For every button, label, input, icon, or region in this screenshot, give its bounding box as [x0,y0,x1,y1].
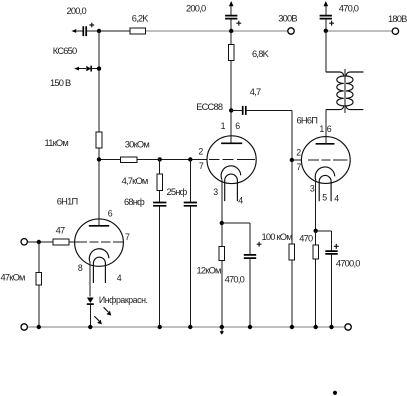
tube ECC88 cathode [221,166,241,201]
ground marker [220,327,224,335]
diode KC650 arrow [74,67,86,71]
resistor 470 [313,245,319,259]
wire cathode to 12k [221,223,223,327]
wire 6N6P grid column [291,160,293,327]
stray dot bottom right [333,391,337,395]
tube 6N1P grid [74,241,123,243]
input arrow left [72,29,84,33]
svg-text:30кОм: 30кОм [125,140,150,150]
svg-text:5: 5 [322,193,327,203]
wire top rail left segment [86,30,130,32]
wire cathode to 470 [315,231,317,327]
svg-text:4: 4 [238,196,243,206]
resistor 4,7kOm [157,174,163,191]
svg-text:3: 3 [310,183,315,193]
wire 47 to grid [69,241,75,243]
node ECC88 cathode junction [220,221,224,225]
node 6N6P cathode junction [314,229,318,233]
tube 6N6P envelope [301,137,350,184]
capacitor 25nf [184,203,197,206]
svg-text:6Н6П: 6Н6П [297,116,318,126]
tube ECC88 grid [209,158,255,160]
wire input to node [28,241,54,243]
wire mid rail [99,158,207,160]
svg-text:4,7: 4,7 [250,87,261,97]
svg-text:7: 7 [297,162,302,172]
tube 6N6P grid [308,159,347,161]
capacitor 470,0 top [320,1,334,31]
node input junction [37,240,41,244]
node C junction [188,157,192,161]
svg-text:12кОм: 12кОм [197,266,222,276]
wire 6N6P plate column [325,110,327,144]
node 200,0 junction [229,29,233,33]
svg-text:Инфракрасн.: Инфракрасн. [99,295,148,305]
node 470,0 junction [324,29,328,33]
pin labels ECC88 [198,121,243,206]
wire node C down [189,159,191,327]
wire node B down [159,159,161,327]
resistor 6,8K [228,45,234,61]
node A junction [97,157,101,161]
capacitor 4,7 [231,106,292,160]
wire 6N6P grid lead [292,159,302,161]
svg-text:6: 6 [327,124,332,134]
LED infrared [87,298,111,328]
svg-text:6,8K: 6,8K [252,49,270,59]
node dots bottom rail [37,325,41,329]
resistor 30kOm [120,157,137,163]
node B junction [158,157,162,161]
svg-text:1: 1 [319,124,324,134]
tube ECC88 envelope [207,136,256,184]
svg-text:6,2K: 6,2K [132,14,150,24]
svg-text:180В: 180В [388,14,407,24]
svg-text:7: 7 [125,232,130,242]
wire transformer left column [325,31,327,144]
wire ECC88 cathode leg [221,179,223,223]
svg-text:11кОм: 11кОм [45,138,69,148]
node top-left junction [97,29,101,33]
svg-text:КС650: КС650 [53,46,77,56]
svg-text:100 кОм: 100 кОм [262,232,293,242]
svg-text:300В: 300В [278,13,297,23]
terminal 180V [392,28,398,34]
svg-text:7: 7 [199,161,204,171]
capacitor 68nf [153,203,166,206]
pin labels 6N6P [296,124,339,203]
wire ECC88 plate column [230,31,232,143]
resistor 11kOm [96,132,102,148]
terminal output bottom right [345,324,351,330]
terminal input top [21,239,27,245]
svg-text:25нф: 25нф [167,187,188,197]
svg-text:47кОм: 47кОм [1,273,26,283]
tube 6N6P cathode [315,167,335,201]
svg-text:8: 8 [78,263,83,273]
svg-text:4: 4 [117,273,122,283]
terminal 300V [288,28,294,34]
resistor 47kOm [36,273,42,286]
pin labels 6N1P [78,209,130,283]
resistor 6,2K [130,28,146,34]
svg-text:4700,0: 4700,0 [336,259,360,269]
svg-text:ECC88: ECC88 [196,102,223,112]
svg-text:470,0: 470,0 [225,275,245,285]
svg-text:200,0: 200,0 [186,3,206,13]
svg-text:6: 6 [108,209,113,219]
capacitor C 200,0 input [83,23,94,36]
wire 6N1P cathode leg [89,262,91,296]
tube ECC88 plate [221,142,242,144]
svg-text:6Н1П: 6Н1П [57,197,78,207]
resistor 100kOm [289,244,295,260]
tube 6N6P plate [316,143,335,145]
tube 6N1P plate [89,225,109,227]
resistor 12kOm [219,246,225,260]
capacitor 4700,0 [316,231,339,327]
wire 6N6P cathode leg [315,180,317,230]
node 6N6P grid junction [290,158,294,162]
capacitor 470,0 mid [222,223,262,327]
wire 47kOm column [38,242,40,327]
tube 6N1P cathode [89,249,109,283]
diode KC650 [86,66,99,72]
node diode junction [97,66,101,70]
svg-text:2: 2 [198,147,203,157]
svg-text:150 В: 150 В [50,78,71,88]
resistor 47 [53,239,69,245]
wire left column [98,31,100,226]
svg-text:6: 6 [235,121,240,131]
svg-text:4,7кОм: 4,7кОм [122,176,148,186]
wire 180V rail [326,30,392,32]
svg-text:47: 47 [56,226,65,236]
transformer T1 [326,69,364,113]
svg-text:1: 1 [221,121,226,131]
tube 6N1P envelope [75,219,124,266]
wire bottom rail [28,326,345,328]
terminal input bottom [21,324,27,330]
svg-text:470: 470 [299,234,313,244]
svg-text:470,0: 470,0 [339,4,359,14]
svg-text:2: 2 [296,147,301,157]
svg-text:3: 3 [213,187,218,197]
svg-text:4: 4 [334,193,339,203]
node ECC88 plate junction [229,108,233,112]
svg-text:200,0: 200,0 [67,6,87,16]
capacitor 200,0 top [225,1,241,31]
svg-text:68нф: 68нф [124,197,145,207]
